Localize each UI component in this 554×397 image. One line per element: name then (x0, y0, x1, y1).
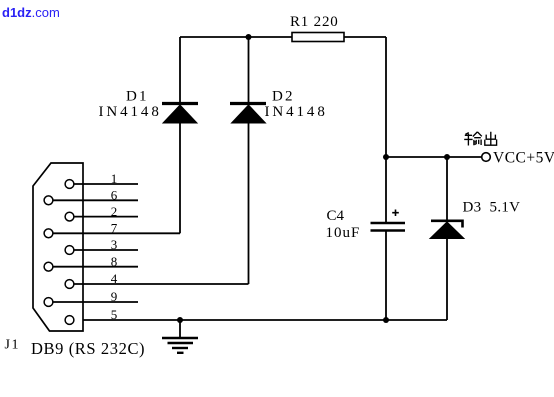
svg-text:9: 9 (111, 289, 118, 304)
pin 8 (44, 254, 138, 271)
svg-text:D3 5.1V: D3 5.1V (463, 200, 521, 216)
pin 4 (to D2) (65, 271, 248, 288)
svg-text:3: 3 (111, 237, 118, 252)
svg-text:DB9 (RS 232C): DB9 (RS 232C) (31, 339, 145, 358)
输 right part 俞 (473, 132, 482, 145)
node junction rail-main (383, 154, 389, 160)
pin 3 (65, 237, 138, 254)
node junction C4-ground rail (383, 317, 389, 323)
ground (162, 320, 198, 353)
wire main vertical upper (resistor to output rail) (385, 37, 387, 157)
svg-text:4: 4 (111, 271, 118, 286)
node junction ground tap (177, 317, 183, 323)
diode D2 (230, 37, 266, 284)
pin 5 (ground rail) (65, 307, 117, 324)
svg-text:IN4148: IN4148 (99, 104, 162, 120)
capacitor C4 (371, 223, 406, 231)
wire main vertical lower (C4 bottom plate to ground rail) (385, 231, 387, 320)
pin 6 (44, 188, 138, 205)
zener diode D3 (430, 157, 464, 320)
terminal VCC (open circle) (482, 153, 491, 162)
resistor R1 (292, 33, 344, 42)
svg-text:5: 5 (111, 307, 118, 322)
出 (485, 132, 497, 145)
svg-text:D2: D2 (272, 89, 295, 105)
wire top rail right segment (344, 36, 386, 38)
svg-text:7: 7 (111, 221, 118, 236)
svg-text:d1dz.com: d1dz.com (2, 5, 60, 20)
svg-text:10uF: 10uF (326, 225, 361, 241)
svg-text:2: 2 (111, 204, 118, 219)
svg-text:D1: D1 (126, 89, 149, 105)
pin 1 (65, 171, 138, 188)
connector J1 DB9 outline (33, 163, 83, 331)
wire ground rail (74, 319, 447, 321)
svg-text:J1: J1 (5, 338, 21, 353)
node junction rail-D3 (444, 154, 450, 160)
svg-text:VCC+5V: VCC+5V (493, 150, 554, 167)
pin 2 (65, 204, 138, 221)
svg-text:R1 220: R1 220 (290, 14, 339, 30)
pin 7 (to D1) (44, 221, 180, 238)
wire output rail (386, 156, 482, 158)
svg-text:IN4148: IN4148 (265, 104, 328, 120)
wire main vertical mid (output rail to C4 top plate) (385, 157, 387, 222)
pin 9 (44, 289, 138, 306)
diode D1 (162, 37, 198, 233)
label + (C4 polarity) (392, 210, 399, 217)
输 left radical 车 (464, 133, 472, 146)
svg-text:6: 6 (111, 188, 118, 203)
label 输出 (drawn glyphs) (464, 132, 496, 146)
node junction top (D2 tap) (246, 34, 252, 40)
svg-text:C4: C4 (327, 208, 345, 224)
svg-text:8: 8 (111, 254, 118, 269)
wire top rail left segment (180, 36, 292, 38)
svg-text:1: 1 (111, 171, 118, 186)
